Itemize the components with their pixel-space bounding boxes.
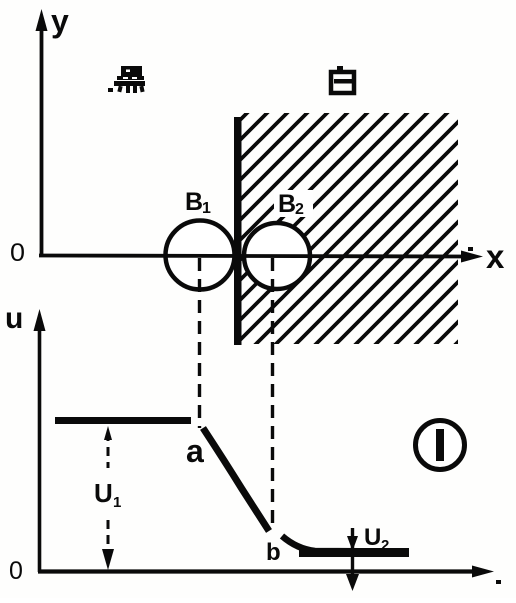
svg-text:U: U — [94, 478, 113, 508]
svg-text:0: 0 — [10, 239, 25, 267]
svg-text:B: B — [278, 190, 296, 218]
circle B1 — [166, 221, 235, 290]
svg-text:a: a — [186, 433, 204, 469]
u2 dimension arrows — [346, 528, 359, 591]
u1 dimension arrow (dashed, double-headed) — [102, 426, 114, 570]
svg-text:2: 2 — [295, 201, 304, 218]
svg-text:b: b — [266, 539, 281, 566]
u2 level curve and thick line — [282, 536, 409, 552]
kanji white (shiro) — [331, 66, 354, 93]
stray speck near x arrow — [468, 247, 473, 251]
circle B2 — [244, 223, 310, 289]
kanji black (kuro) — [108, 66, 145, 93]
circled figure number 1 — [416, 421, 465, 470]
svg-text:1: 1 — [113, 494, 121, 511]
svg-text:U: U — [364, 524, 381, 551]
svg-text:x: x — [486, 238, 505, 275]
dashed line from B1 center to point a — [198, 258, 201, 428]
hatched white region — [238, 113, 458, 344]
u axis — [34, 309, 46, 572]
u1 level thick line — [55, 417, 191, 424]
x axis (top graph) — [39, 251, 483, 263]
svg-text:B: B — [185, 188, 203, 216]
x axis (bottom graph) — [38, 566, 494, 578]
label u1 — [94, 478, 121, 511]
y axis — [36, 9, 48, 255]
svg-text:u: u — [5, 302, 23, 335]
svg-text:y: y — [51, 3, 69, 39]
dashed line from B2 center to point b — [271, 258, 274, 528]
boundary line between black and white regions — [234, 117, 242, 345]
label B2 — [274, 190, 313, 218]
label B1 — [185, 188, 211, 217]
svg-text:1: 1 — [202, 200, 211, 217]
curve from a to b — [203, 428, 269, 531]
label u2 — [364, 524, 389, 554]
svg-text:2: 2 — [381, 537, 389, 554]
stray speck bottom right — [496, 580, 501, 584]
svg-text:0: 0 — [9, 557, 23, 585]
